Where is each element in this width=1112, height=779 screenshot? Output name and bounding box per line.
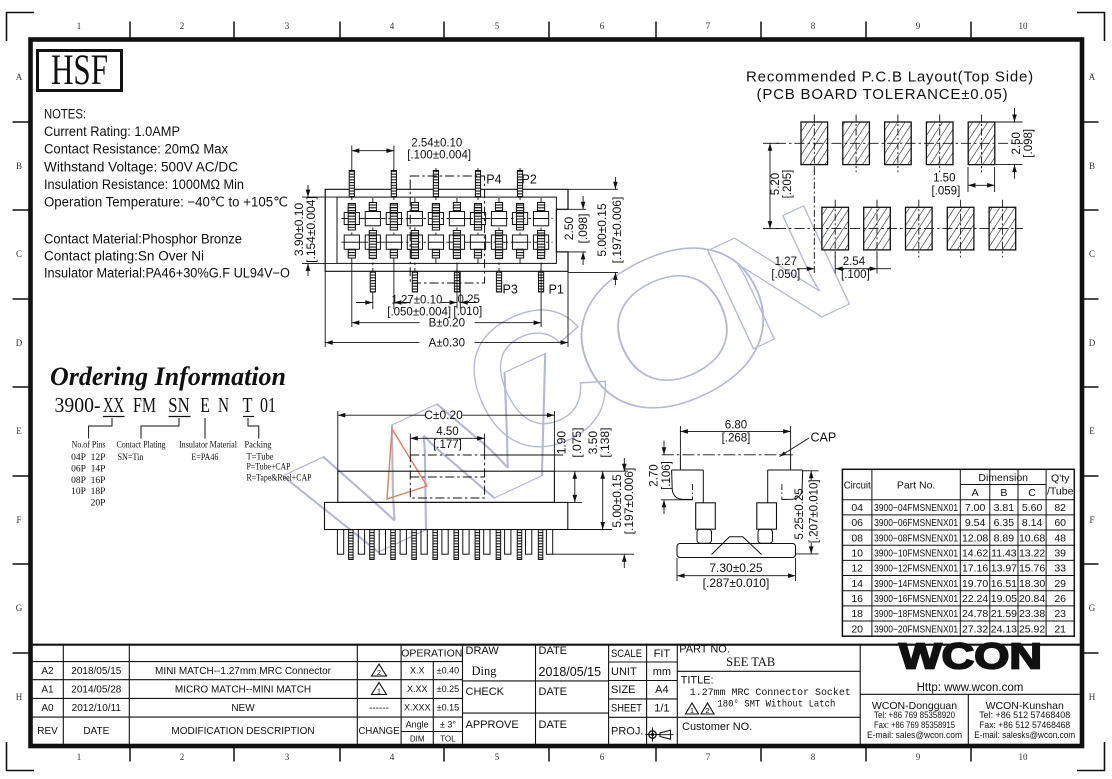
svg-text:Ordering Information: Ordering Information (50, 362, 286, 391)
svg-text:10.68: 10.68 (1019, 532, 1045, 544)
svg-text:Ding: Ding (472, 664, 498, 678)
svg-text:20P: 20P (91, 498, 106, 508)
svg-text:5.60: 5.60 (1022, 502, 1043, 514)
svg-text:Insulation Resistance: 1000MΩ: Insulation Resistance: 1000MΩ Min (44, 177, 244, 192)
svg-text:3900−06FMSNENX01: 3900−06FMSNENX01 (874, 518, 958, 529)
svg-text:4: 4 (390, 21, 395, 31)
svg-text:15.76: 15.76 (1019, 563, 1045, 575)
svg-text:E: E (200, 393, 210, 417)
svg-text:3: 3 (285, 752, 290, 762)
svg-text:TITLE:: TITLE: (681, 675, 714, 687)
svg-text:8: 8 (811, 752, 816, 762)
svg-text:14: 14 (851, 578, 863, 590)
svg-text:39: 39 (1054, 547, 1066, 559)
svg-text:Current Rating: 1.0AMP: Current Rating: 1.0AMP (44, 124, 180, 139)
svg-text:[.059]: [.059] (932, 185, 961, 197)
svg-text:A: A (972, 487, 979, 499)
svg-text:5: 5 (495, 21, 500, 31)
svg-text:CHECK: CHECK (466, 686, 505, 698)
svg-text:Circuit: Circuit (844, 480, 871, 492)
svg-text:D: D (1089, 338, 1096, 348)
svg-text:[.050]: [.050] (771, 269, 800, 281)
svg-text:A±0.30: A±0.30 (429, 337, 465, 349)
svg-text:14.62: 14.62 (962, 547, 988, 559)
svg-text:1: 1 (77, 21, 82, 31)
svg-text:[.154±0.004]: [.154±0.004] (304, 196, 318, 263)
svg-text:Http: www.wcon.com: Http: www.wcon.com (917, 682, 1024, 694)
svg-text:C: C (1089, 249, 1095, 259)
svg-text:±0.15: ±0.15 (437, 703, 459, 713)
svg-text:G: G (16, 603, 23, 613)
svg-text:[.197±0.006]: [.197±0.006] (622, 468, 636, 535)
svg-text:08: 08 (851, 532, 863, 544)
svg-text:1: 1 (690, 706, 694, 715)
svg-text:B±0.20: B±0.20 (429, 317, 465, 329)
svg-text:6.80: 6.80 (725, 419, 747, 431)
svg-text:SEE TAB: SEE TAB (726, 655, 775, 669)
svg-text:7: 7 (706, 752, 711, 762)
svg-text:H: H (16, 692, 23, 702)
svg-text:7: 7 (706, 21, 711, 31)
svg-text:20: 20 (851, 623, 863, 635)
svg-text:04: 04 (851, 502, 863, 514)
svg-text:1.27: 1.27 (775, 256, 797, 268)
svg-text:27.32: 27.32 (962, 623, 988, 635)
svg-text:19.05: 19.05 (991, 593, 1017, 605)
svg-text:2018/05/15: 2018/05/15 (71, 666, 121, 677)
svg-text:23: 23 (1054, 608, 1066, 620)
svg-text:X.XX: X.XX (407, 684, 428, 694)
svg-text:25.92: 25.92 (1019, 623, 1045, 635)
svg-text:24.13: 24.13 (991, 623, 1017, 635)
svg-text:12.08: 12.08 (962, 532, 988, 544)
svg-text:A: A (1089, 72, 1096, 82)
svg-text:29: 29 (1054, 578, 1066, 590)
svg-text:P=Tube+CAP: P=Tube+CAP (247, 463, 291, 473)
svg-text:4: 4 (390, 752, 395, 762)
svg-text:A4: A4 (655, 684, 668, 696)
svg-text:B: B (16, 161, 22, 171)
svg-text:Dimension: Dimension (978, 472, 1028, 484)
svg-text:3900−14FMSNENX01: 3900−14FMSNENX01 (874, 579, 958, 590)
svg-text:48: 48 (1054, 532, 1066, 544)
svg-text:2: 2 (180, 752, 185, 762)
svg-text:17.16: 17.16 (962, 563, 988, 575)
svg-text:A0: A0 (41, 703, 54, 714)
svg-text:SHEET: SHEET (611, 703, 642, 715)
svg-text:[.098]: [.098] (1023, 129, 1035, 158)
svg-text:2: 2 (180, 21, 185, 31)
svg-text:SN: SN (168, 393, 190, 417)
svg-text:01: 01 (260, 393, 276, 417)
svg-text:± 3°: ± 3° (440, 719, 456, 729)
svg-text:8: 8 (811, 21, 816, 31)
svg-text:3900-: 3900- (55, 393, 101, 417)
svg-text:1/1: 1/1 (654, 703, 669, 715)
svg-text:[.138]: [.138] (598, 428, 612, 458)
svg-text:82: 82 (1054, 502, 1066, 514)
svg-text:FIT: FIT (654, 648, 671, 660)
svg-text:Operation Temperature: −40℃ t: Operation Temperature: −40℃ to +105℃ (44, 195, 288, 210)
svg-text:B: B (1089, 161, 1095, 171)
svg-text:2014/05/28: 2014/05/28 (71, 685, 121, 696)
svg-text:5.25±0.25: 5.25±0.25 (794, 488, 806, 539)
svg-text:P4: P4 (486, 173, 501, 187)
svg-text:5.00±0.15: 5.00±0.15 (595, 203, 609, 257)
svg-text:16: 16 (851, 593, 863, 605)
svg-text:3900−20FMSNENX01: 3900−20FMSNENX01 (874, 624, 958, 635)
svg-text:A: A (16, 72, 23, 82)
svg-text:10P: 10P (71, 487, 86, 497)
svg-text:REV: REV (37, 726, 58, 737)
svg-text:[.205]: [.205] (782, 170, 794, 199)
svg-text:2: 2 (377, 668, 381, 677)
svg-text:Packing: Packing (245, 441, 272, 451)
svg-text:3900−04FMSNENX01: 3900−04FMSNENX01 (874, 503, 958, 514)
svg-text:E: E (16, 426, 22, 436)
svg-text:2: 2 (705, 706, 709, 715)
svg-text:DATE: DATE (539, 686, 568, 698)
svg-text:6: 6 (600, 752, 605, 762)
svg-text:Q'ty: Q'ty (1051, 473, 1070, 485)
svg-text:21.59: 21.59 (991, 608, 1017, 620)
svg-text:H: H (1089, 692, 1096, 702)
svg-text:1: 1 (77, 752, 82, 762)
svg-text:22.24: 22.24 (962, 593, 988, 605)
svg-text:7.00: 7.00 (965, 502, 986, 514)
svg-text:3900−12FMSNENX01: 3900−12FMSNENX01 (874, 564, 958, 575)
svg-text:06: 06 (851, 517, 863, 529)
svg-text:Angle: Angle (406, 719, 429, 729)
svg-text:SIZE: SIZE (611, 684, 635, 696)
svg-text:E-mail: sales@wcon.com: E-mail: sales@wcon.com (867, 730, 962, 741)
svg-text:08P: 08P (71, 476, 86, 486)
svg-text:mm: mm (653, 666, 671, 678)
svg-text:DATE: DATE (539, 645, 568, 657)
svg-text:UNIT: UNIT (611, 666, 637, 678)
svg-text:8.14: 8.14 (1022, 517, 1043, 529)
svg-text:C±0.20: C±0.20 (424, 408, 463, 422)
svg-text:Contact Resistance: 20mΩ Max: Contact Resistance: 20mΩ Max (44, 142, 228, 157)
svg-text:X.XXX: X.XXX (404, 703, 431, 713)
svg-text:2012/10/11: 2012/10/11 (72, 703, 122, 714)
svg-text:33: 33 (1054, 563, 1066, 575)
svg-text:MODIFICATION DESCRIPTION: MODIFICATION DESCRIPTION (171, 726, 314, 737)
svg-text:Customer NO.: Customer NO. (682, 721, 752, 733)
svg-text:±0.40: ±0.40 (437, 666, 459, 676)
svg-text:1.27±0.10: 1.27±0.10 (391, 294, 442, 306)
svg-text:Insulator Material:PA46+30%G.F: Insulator Material:PA46+30%G.F UL94V−O (44, 265, 290, 280)
svg-text:[.010]: [.010] (453, 306, 482, 318)
svg-text:0.25: 0.25 (458, 294, 480, 306)
svg-text:Part No.: Part No. (897, 480, 936, 492)
svg-text:CHANGE: CHANGE (359, 726, 400, 737)
svg-text:HSF: HSF (51, 47, 108, 94)
svg-text:[.106]: [.106] (661, 461, 673, 490)
svg-text:16P: 16P (91, 476, 106, 486)
svg-text:[.100]: [.100] (841, 269, 870, 281)
svg-text:CAP: CAP (811, 431, 837, 445)
svg-text:2.54: 2.54 (843, 256, 866, 268)
svg-text:8.89: 8.89 (994, 532, 1015, 544)
svg-text:9.54: 9.54 (965, 517, 986, 529)
svg-text:MICRO MATCH--MINI MATCH: MICRO MATCH--MINI MATCH (175, 685, 311, 696)
svg-text:26: 26 (1054, 593, 1066, 605)
svg-text:4.50: 4.50 (436, 426, 458, 438)
svg-text:[.207±0.010]: [.207±0.010] (809, 479, 821, 543)
svg-text:No.of Pins: No.of Pins (72, 440, 106, 451)
svg-text:24.78: 24.78 (962, 608, 988, 620)
svg-text:OPERATION: OPERATION (401, 648, 462, 660)
svg-text:R=Tape&Reel+CAP: R=Tape&Reel+CAP (247, 473, 312, 483)
svg-text:10: 10 (1019, 752, 1029, 762)
svg-text:DIM: DIM (410, 734, 425, 743)
svg-text:MINI MATCH--1.27mm MRC Connect: MINI MATCH--1.27mm MRC Connector (155, 666, 332, 677)
svg-text:180° SMT Without Latch: 180° SMT Without Latch (717, 699, 835, 711)
svg-text:18: 18 (851, 608, 863, 620)
svg-text:3.81: 3.81 (994, 502, 1015, 514)
svg-text:NOTES:: NOTES: (44, 107, 86, 122)
svg-text:X.X: X.X (410, 666, 425, 676)
svg-text:23.38: 23.38 (1019, 608, 1045, 620)
svg-text:APPROVE: APPROVE (466, 719, 519, 731)
svg-text:[.075]: [.075] (570, 428, 584, 458)
svg-text:B: B (1000, 487, 1007, 499)
svg-text:2.70: 2.70 (648, 464, 660, 486)
svg-text:3900−18FMSNENX01: 3900−18FMSNENX01 (874, 609, 958, 620)
svg-text:C: C (16, 249, 22, 259)
svg-text:3900−10FMSNENX01: 3900−10FMSNENX01 (874, 548, 958, 559)
svg-text:6: 6 (600, 21, 605, 31)
svg-text:1: 1 (377, 687, 381, 696)
svg-text:16.51: 16.51 (991, 578, 1017, 590)
svg-text:P3: P3 (503, 283, 518, 297)
svg-text:12P: 12P (91, 453, 106, 463)
svg-text:NEW: NEW (231, 703, 255, 714)
svg-text:Withstand Voltage: 500V AC/DC: Withstand Voltage: 500V AC/DC (44, 159, 238, 174)
svg-text:TOL: TOL (440, 734, 456, 743)
svg-text:3: 3 (285, 21, 290, 31)
svg-text:A1: A1 (41, 685, 54, 696)
svg-text:PROJ.: PROJ. (611, 725, 643, 737)
svg-text:18.30: 18.30 (1019, 578, 1045, 590)
svg-text:(PCB BOARD TOLERANCE±0.05): (PCB BOARD TOLERANCE±0.05) (757, 86, 1009, 103)
svg-text:Insulator Material: Insulator Material (179, 441, 237, 451)
svg-text:10: 10 (1019, 21, 1029, 31)
svg-text:2018/05/15: 2018/05/15 (539, 665, 602, 679)
svg-text:2.50: 2.50 (562, 216, 576, 240)
svg-text:[.100±0.004]: [.100±0.004] (407, 150, 471, 162)
svg-text:14P: 14P (91, 465, 106, 475)
svg-text:E: E (1089, 426, 1095, 436)
svg-text:------: ------ (369, 703, 389, 714)
svg-text:D: D (16, 338, 23, 348)
svg-text:6.35: 6.35 (994, 517, 1015, 529)
svg-text:P1: P1 (549, 283, 564, 297)
svg-text:3900−16FMSNENX01: 3900−16FMSNENX01 (874, 594, 958, 605)
svg-text:12: 12 (851, 563, 863, 575)
svg-text:[.098]: [.098] (576, 213, 590, 243)
svg-text:[.177]: [.177] (433, 439, 462, 451)
svg-text:P2: P2 (522, 173, 537, 187)
svg-text:T=Tube: T=Tube (247, 452, 274, 462)
svg-text:[.197±0.006]: [.197±0.006] (610, 197, 624, 264)
svg-text:7.30±0.25: 7.30±0.25 (709, 561, 763, 575)
svg-text:A2: A2 (41, 666, 54, 677)
svg-text:[.268]: [.268] (722, 432, 751, 444)
svg-text:DRAW: DRAW (466, 645, 500, 657)
svg-text:FM: FM (133, 393, 156, 417)
svg-text:13.22: 13.22 (1019, 547, 1045, 559)
svg-text:XX: XX (103, 393, 124, 417)
svg-text:/Tube: /Tube (1047, 486, 1074, 498)
svg-text:PART NO.: PART NO. (679, 644, 730, 656)
svg-text:1.27mm MRC Connector Socket: 1.27mm MRC Connector Socket (690, 687, 851, 699)
svg-text:18P: 18P (91, 487, 106, 497)
svg-text:9: 9 (916, 752, 921, 762)
svg-text:11.43: 11.43 (991, 547, 1017, 559)
svg-text:[.287±0.010]: [.287±0.010] (703, 576, 770, 590)
svg-text:SCALE: SCALE (611, 648, 642, 660)
svg-text:±0.25: ±0.25 (437, 684, 459, 694)
svg-text:C: C (1028, 487, 1036, 499)
svg-text:5: 5 (495, 752, 500, 762)
svg-text:1.90: 1.90 (555, 431, 569, 455)
svg-text:SN=Tin: SN=Tin (118, 453, 144, 463)
svg-text:2.50: 2.50 (1011, 132, 1023, 154)
svg-text:DATE: DATE (539, 719, 568, 731)
svg-text:60: 60 (1054, 517, 1066, 529)
svg-text:E=PA46: E=PA46 (191, 453, 218, 463)
svg-text:06P: 06P (71, 465, 86, 475)
svg-text:9: 9 (916, 21, 921, 31)
svg-text:13.97: 13.97 (991, 563, 1017, 575)
svg-text:21: 21 (1054, 623, 1066, 635)
svg-text:T: T (243, 393, 253, 417)
svg-text:Contact Plating: Contact Plating (117, 441, 166, 451)
svg-text:WCON: WCON (899, 636, 1042, 677)
svg-text:2.54±0.10: 2.54±0.10 (411, 138, 462, 150)
svg-text:3900−08FMSNENX01: 3900−08FMSNENX01 (874, 533, 958, 544)
svg-text:Recommended P.C.B Layout(Top: Recommended P.C.B Layout(Top Side) (746, 69, 1034, 86)
svg-text:F: F (1089, 515, 1094, 525)
svg-text:F: F (16, 515, 21, 525)
svg-text:G: G (1089, 603, 1096, 613)
svg-text:20.84: 20.84 (1019, 593, 1045, 605)
svg-text:04P: 04P (71, 453, 86, 463)
svg-text:DATE: DATE (83, 726, 109, 737)
svg-text:19.70: 19.70 (962, 578, 988, 590)
svg-text:1.50: 1.50 (933, 173, 955, 185)
svg-text:10: 10 (851, 547, 863, 559)
svg-text:E-mail: salesks@wcon.com: E-mail: salesks@wcon.com (974, 730, 1075, 741)
svg-text:Contact Material:Phosphor Bron: Contact Material:Phosphor Bronze (44, 231, 242, 246)
svg-text:N: N (218, 393, 229, 417)
svg-text:5.20: 5.20 (770, 173, 782, 195)
svg-text:Contact plating:Sn Over Ni: Contact plating:Sn Over Ni (44, 248, 204, 263)
